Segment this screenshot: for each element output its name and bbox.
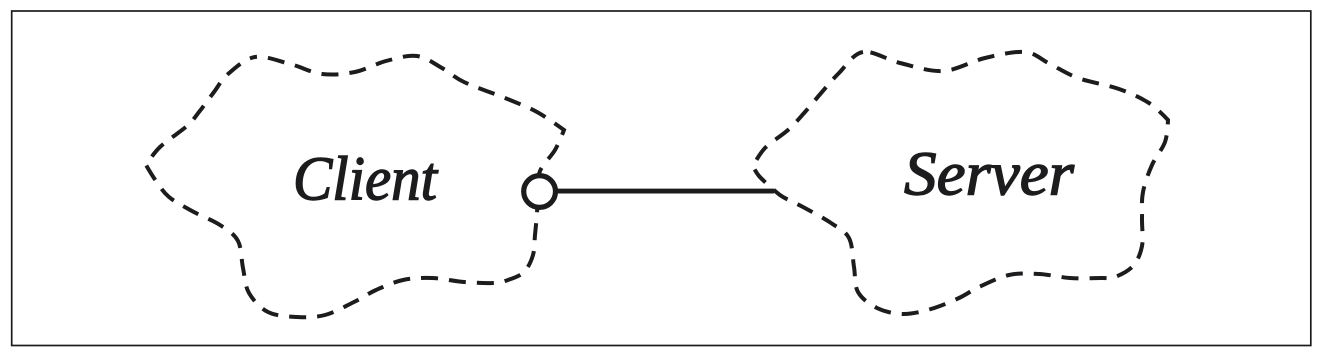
socket circle on client bbox=[524, 176, 556, 208]
connector wire client-server bbox=[554, 189, 774, 194]
svg-text:Server: Server bbox=[904, 141, 1075, 209]
server cloud (dashed blob) bbox=[753, 52, 1168, 314]
client cloud (dashed blob) bbox=[146, 56, 564, 318]
svg-text:Client: Client bbox=[293, 146, 439, 214]
